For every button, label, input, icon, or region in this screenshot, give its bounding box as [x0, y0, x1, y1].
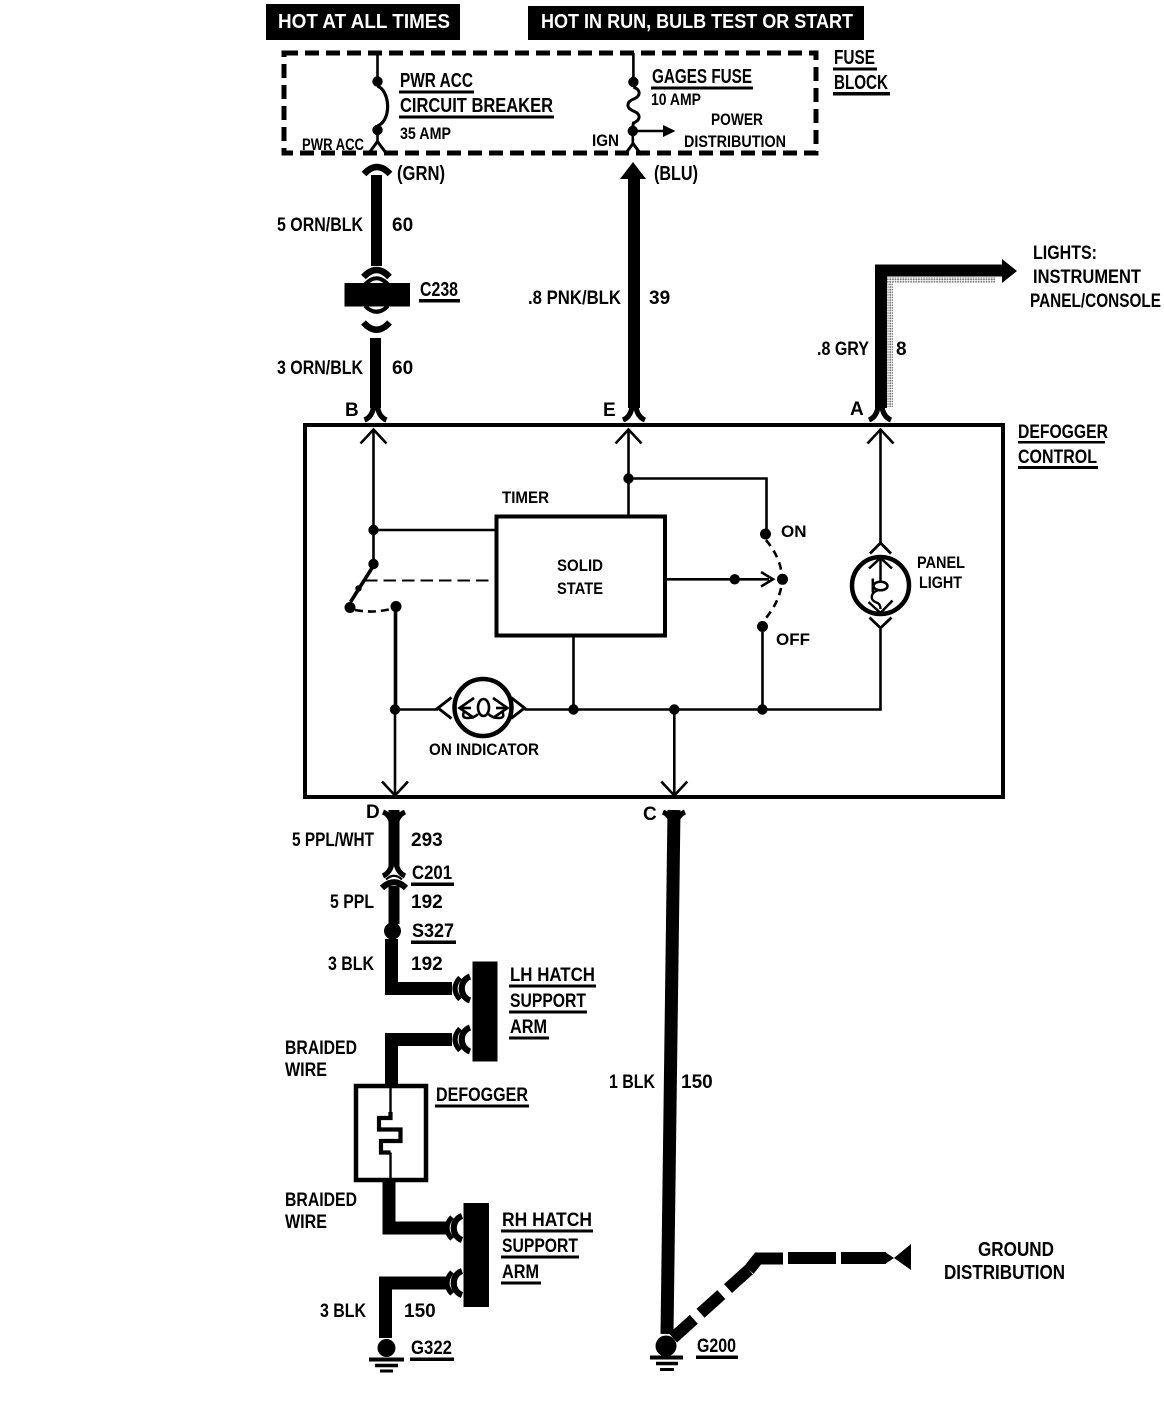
wire timer bottom to bus	[572, 636, 575, 710]
svg-text:10 AMP: 10 AMP	[651, 90, 701, 109]
wire .8 GRY 8 to lights (with halftone shadow)	[888, 277, 894, 407]
svg-text:8: 8	[896, 339, 907, 360]
pin B entry arrow	[361, 430, 387, 444]
svg-text:G200: G200	[697, 1336, 736, 1357]
svg-text:B: B	[345, 400, 359, 421]
timer output wire with arrow	[665, 578, 769, 581]
svg-text:150: 150	[681, 1072, 713, 1093]
svg-text:DEFOGGER: DEFOGGER	[436, 1085, 528, 1106]
svg-text:DISTRIBUTION: DISTRIBUTION	[944, 1262, 1065, 1284]
svg-text:D: D	[366, 802, 380, 823]
svg-text:DISTRIBUTION: DISTRIBUTION	[684, 132, 786, 151]
connector cap at PWR ACC output (GRN)	[364, 167, 390, 174]
arrow to ground distribution	[894, 1244, 911, 1270]
svg-text:RH HATCH: RH HATCH	[502, 1210, 592, 1231]
wire E to ON contact	[629, 479, 767, 531]
panel light bulb	[852, 543, 909, 628]
label FUSE BLOCK	[833, 47, 890, 96]
svg-text:150: 150	[404, 1301, 436, 1322]
connector C201	[382, 863, 406, 888]
switch pivot node	[368, 559, 378, 569]
arrow to LIGHTS	[1002, 259, 1017, 283]
svg-text:LIGHT: LIGHT	[919, 573, 963, 592]
label PWR ACC CIRCUIT BREAKER 35 AMP	[302, 70, 554, 154]
svg-text:192: 192	[411, 892, 443, 913]
svg-text:PANEL: PANEL	[917, 553, 965, 572]
svg-text:C201: C201	[412, 863, 452, 884]
svg-text:60: 60	[392, 358, 413, 379]
svg-text:HOT IN RUN, BULB TEST OR STAR: HOT IN RUN, BULB TEST OR START	[541, 11, 853, 33]
svg-text:PWR ACC: PWR ACC	[302, 135, 364, 154]
svg-text:ARM: ARM	[510, 1017, 547, 1038]
dashed blade arc	[355, 609, 391, 612]
label GROUND DISTRIBUTION	[944, 1239, 1065, 1284]
svg-text:.8 PNK/BLK: .8 PNK/BLK	[528, 288, 621, 309]
svg-text:3 ORN/BLK: 3 ORN/BLK	[277, 358, 363, 379]
svg-text:BRAIDED: BRAIDED	[285, 1190, 357, 1211]
svg-text:SUPPORT: SUPPORT	[510, 991, 586, 1012]
LH hatch support arm	[473, 962, 498, 1062]
svg-text:WIRE: WIRE	[285, 1060, 327, 1081]
pin A entry arrow	[868, 430, 894, 444]
wire 1 BLK 150 to G200	[667, 810, 674, 1334]
svg-text:C: C	[643, 804, 657, 825]
svg-text:PANEL/CONSOLE: PANEL/CONSOLE	[1030, 291, 1161, 312]
svg-text:GROUND: GROUND	[978, 1239, 1054, 1261]
power distribution arrow	[663, 125, 676, 137]
svg-text:E: E	[603, 400, 616, 421]
dashed wire to ground distribution	[673, 1267, 752, 1338]
bottom bus wire in control box	[395, 708, 438, 711]
svg-text:(GRN): (GRN)	[397, 163, 445, 185]
dashed switch arc ON-OFF	[764, 540, 782, 621]
svg-text:5 PPL: 5 PPL	[330, 892, 374, 913]
label DEFOGGER CONTROL	[1018, 422, 1108, 469]
pin C exit arrow	[673, 710, 676, 796]
heater element zigzag	[389, 1088, 391, 1116]
wire 5 PPL 192	[389, 886, 400, 924]
OFF contact	[757, 621, 768, 632]
splice S327	[384, 923, 401, 940]
svg-text:39: 39	[649, 288, 670, 309]
node E junction	[623, 473, 633, 483]
svg-text:PWR ACC: PWR ACC	[400, 70, 473, 92]
svg-text:S327: S327	[412, 921, 454, 942]
svg-text:C238: C238	[420, 279, 458, 301]
svg-text:FUSE: FUSE	[834, 47, 875, 69]
header bar: HOT IN RUN, BULB TEST OR START	[528, 6, 864, 40]
circuit breaker CB (PWR ACC 35A)	[369, 53, 388, 153]
svg-text:5 ORN/BLK: 5 ORN/BLK	[277, 215, 363, 236]
connector braided wire to arm	[455, 1028, 470, 1052]
pin D exit arrow	[394, 611, 397, 795]
node: B junction to timer	[368, 525, 378, 535]
svg-text:35 AMP: 35 AMP	[400, 124, 451, 143]
defogger control box	[305, 425, 1003, 797]
svg-text:HOT AT ALL TIMES: HOT AT ALL TIMES	[278, 11, 450, 33]
svg-text:INSTRUMENT: INSTRUMENT	[1033, 267, 1141, 288]
svg-text:BRAIDED: BRAIDED	[285, 1038, 357, 1059]
svg-text:LH HATCH: LH HATCH	[510, 965, 595, 986]
wire panel light to bus	[879, 629, 882, 711]
wire 3 ORN/BLK 60	[370, 338, 381, 408]
label GAGES FUSE 10 AMP	[592, 66, 786, 151]
svg-text:BLOCK: BLOCK	[834, 72, 888, 94]
svg-text:3 BLK: 3 BLK	[320, 1301, 366, 1322]
svg-text:3 BLK: 3 BLK	[328, 954, 374, 975]
svg-text:CIRCUIT BREAKER: CIRCUIT BREAKER	[400, 95, 553, 117]
svg-text:SOLID: SOLID	[557, 556, 603, 575]
connector C238	[345, 270, 411, 330]
svg-text:ON INDICATOR: ON INDICATOR	[429, 740, 539, 759]
svg-text:POWER: POWER	[711, 110, 763, 129]
svg-text:293: 293	[411, 830, 443, 851]
svg-text:(BLU): (BLU)	[654, 163, 698, 185]
svg-text:60: 60	[392, 215, 413, 236]
svg-text:WIRE: WIRE	[285, 1212, 327, 1233]
wire 3 BLK 150 to G322	[386, 1283, 447, 1338]
switch blade	[351, 568, 373, 602]
connector RH arm to ground wire	[447, 1271, 462, 1295]
svg-text:GAGES FUSE: GAGES FUSE	[652, 66, 752, 88]
mechanical link dashed	[365, 580, 497, 582]
ON indicator lamp	[438, 679, 525, 736]
defogger grid element	[356, 1086, 426, 1180]
ground G322	[378, 1339, 396, 1357]
ON contact	[760, 529, 771, 540]
svg-text:192: 192	[411, 954, 443, 975]
svg-text:SUPPORT: SUPPORT	[502, 1236, 578, 1257]
pin E entry arrow	[616, 430, 642, 444]
braided wire to defogger	[392, 1040, 453, 1089]
fuse F (GAGES FUSE 10A)	[625, 53, 664, 155]
svg-text:A: A	[850, 399, 864, 420]
label LIGHTS: INSTRUMENT PANEL/CONSOLE	[1030, 243, 1161, 312]
svg-text:.8 GRY: .8 GRY	[817, 339, 869, 360]
ground G200	[656, 1336, 677, 1357]
wire 5 ORN/BLK 60	[371, 175, 382, 266]
label C238	[419, 279, 460, 303]
svg-text:ON: ON	[781, 522, 807, 541]
svg-text:G322: G322	[411, 1338, 452, 1359]
svg-text:ARM: ARM	[502, 1262, 539, 1283]
fuse block dashed box	[284, 53, 816, 153]
braided wire defogger to RH arm	[389, 1180, 446, 1228]
svg-text:LIGHTS:: LIGHTS:	[1033, 243, 1097, 264]
RH hatch support arm	[464, 1203, 490, 1307]
svg-text:CONTROL: CONTROL	[1018, 447, 1097, 468]
svg-text:STATE: STATE	[557, 579, 603, 598]
wire 3 BLK 192 to LH hatch	[392, 939, 453, 989]
svg-text:TIMER: TIMER	[502, 488, 549, 507]
svg-text:1 BLK: 1 BLK	[609, 1072, 655, 1093]
svg-text:OFF: OFF	[776, 630, 810, 649]
wire .8 PNK/BLK 39 (BLU)	[620, 162, 646, 179]
connector to LH hatch support arm	[455, 977, 470, 1001]
wire to timer	[374, 529, 497, 532]
header bar: HOT AT ALL TIMES	[266, 4, 460, 40]
svg-text:IGN: IGN	[592, 131, 619, 150]
svg-text:5 PPL/WHT: 5 PPL/WHT	[292, 830, 374, 851]
wire from switch down	[395, 611, 398, 710]
svg-text:DEFOGGER: DEFOGGER	[1018, 422, 1108, 443]
wire 5 PPL/WHT 293	[389, 810, 400, 866]
connector to RH hatch support arm	[447, 1216, 462, 1240]
